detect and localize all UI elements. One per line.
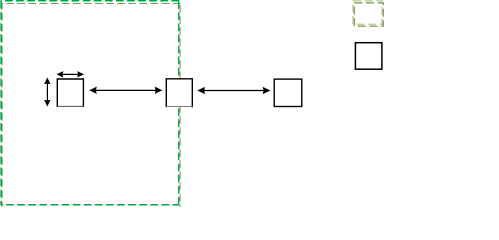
selection highlight (green dashed rectangle)	[0, 0, 179, 205]
drop preview shadow (olive dashed square, offset)	[354, 3, 383, 26]
container outline (gray dashed rectangle, offset behind selection)	[2, 4, 181, 208]
link arrow A2 (double-headed arrow between box B2 and box B3)	[198, 88, 269, 94]
height arrow (vertical double-headed arrow left of box B1)	[45, 78, 50, 106]
box B1 (left small square inside container)	[57, 79, 84, 107]
box B4 (solid square, top right)	[355, 43, 382, 69]
width arrow (horizontal double-headed arrow above box B1)	[57, 72, 83, 77]
box B3 (right square outside container)	[274, 79, 302, 106]
box B2 (middle square straddling container border)	[166, 79, 193, 108]
drop preview (light green dashed square, top right)	[353, 1, 382, 25]
link arrow A1 (double-headed arrow between box B1 and box B2)	[90, 87, 162, 93]
